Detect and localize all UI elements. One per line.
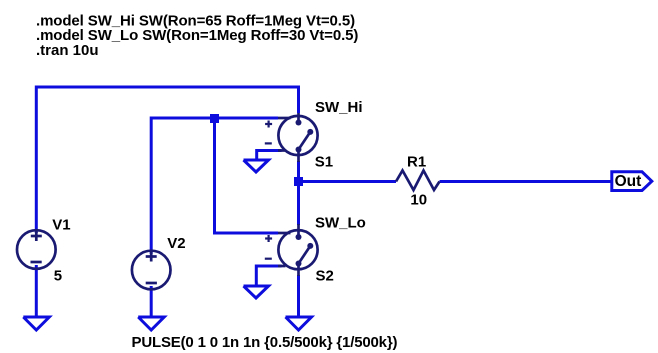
wire junction A down to S2 plus control [215, 118, 279, 233]
wire V2 top to S1 plus control [151, 118, 278, 254]
voltage source V1 [17, 230, 56, 269]
wire V1 bottom to ground [35, 265, 38, 316]
ground for S2 minus [244, 286, 269, 298]
wire R1 to Out flag [440, 180, 613, 183]
node junction B [294, 177, 303, 186]
svg-text:R1: R1 [407, 154, 426, 171]
wire V1 top to S1 top [36, 87, 298, 233]
svg-text:10: 10 [410, 191, 427, 208]
node Out flag [612, 172, 652, 191]
svg-text:V1: V1 [52, 217, 70, 234]
wire S1 minus control to ground [257, 151, 282, 160]
svg-text:V2: V2 [167, 235, 185, 252]
resistor R1 [396, 171, 440, 191]
svg-text:S1: S1 [315, 154, 333, 171]
svg-text:S2: S2 [316, 268, 334, 285]
wire S2 minus control to ground [256, 266, 281, 285]
voltage source V2 [132, 251, 171, 290]
svg-text:PULSE(0 1 0 1n 1n {0.5/500k} {: PULSE(0 1 0 1n 1n {0.5/500k} {1/500k}) [132, 334, 398, 351]
wire junction B to R1 [299, 180, 397, 183]
ground for S2 [286, 317, 312, 330]
switch S2 [265, 224, 318, 276]
ground for V2 [138, 317, 164, 330]
node junction A [210, 114, 219, 123]
switch S1 [265, 113, 318, 162]
svg-text:SW_Lo: SW_Lo [315, 215, 366, 232]
ground for V1 [23, 317, 49, 330]
wire junction B down to S2 top [297, 182, 300, 226]
wire V2 bottom to ground [150, 286, 153, 316]
svg-text:SW_Hi: SW_Hi [315, 99, 363, 116]
svg-text:5: 5 [54, 267, 62, 284]
ground for S1 minus [244, 160, 269, 172]
wire S2 bottom to ground [297, 275, 300, 316]
svg-text:Out: Out [615, 173, 642, 190]
wire S1 bottom to junction B [297, 161, 300, 182]
svg-text:.tran 10u: .tran 10u [36, 42, 99, 59]
